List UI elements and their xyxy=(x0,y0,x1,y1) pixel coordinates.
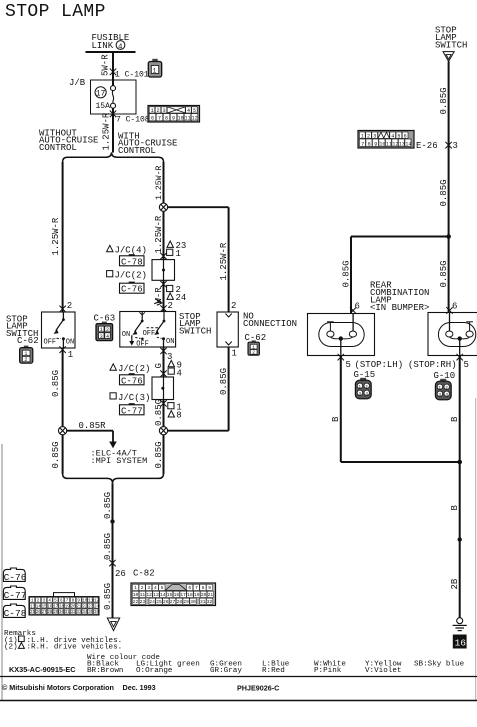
wire label G xyxy=(154,363,164,368)
svg-text:12: 12 xyxy=(392,141,398,147)
svg-text:G: G xyxy=(154,363,164,368)
svg-text:24: 24 xyxy=(176,293,187,303)
svg-text:4: 4 xyxy=(365,391,368,397)
pin 3 E-26 junction mark xyxy=(445,142,451,149)
svg-text:7 C-108: 7 C-108 xyxy=(116,116,150,125)
scan edge right xyxy=(475,398,477,700)
svg-text:11: 11 xyxy=(185,116,191,122)
svg-text:17: 17 xyxy=(180,592,186,598)
inline connector mark C-63 on wire xyxy=(154,299,162,305)
junction dot right lower xyxy=(458,537,462,541)
connector C-78 outline icon xyxy=(3,604,26,619)
joint connector strip icon xyxy=(29,593,100,616)
switch middle internals xyxy=(122,312,175,349)
svg-text:19: 19 xyxy=(65,605,71,609)
pin marker triangle 8 xyxy=(168,411,182,421)
svg-text:14: 14 xyxy=(36,605,42,609)
svg-text:C-77: C-77 xyxy=(121,406,143,416)
svg-text:0.85G: 0.85G xyxy=(154,441,164,468)
svg-text:15A: 15A xyxy=(96,102,111,111)
junction dot right xyxy=(446,234,451,239)
wire no-connection to splice xyxy=(168,430,229,432)
svg-text:0.85G: 0.85G xyxy=(51,441,61,468)
connector label C-78 boxed xyxy=(120,254,145,267)
svg-text:CONNECTION: CONNECTION xyxy=(243,319,297,329)
wire label 0.85G center 3 xyxy=(103,583,113,610)
svg-text:27: 27 xyxy=(42,611,48,615)
svg-text:35: 35 xyxy=(88,611,94,615)
wire colour code row 1 xyxy=(87,661,465,669)
wire center lower xyxy=(112,483,114,617)
wire label 0.85G middle lower xyxy=(154,441,164,468)
svg-text:19: 19 xyxy=(194,592,200,598)
connector C-108 icon xyxy=(148,106,200,123)
svg-text:5: 5 xyxy=(193,108,196,114)
svg-text:1: 1 xyxy=(151,108,154,114)
svg-text:1: 1 xyxy=(100,327,103,333)
stop lamp switch middle box xyxy=(120,312,176,348)
svg-text:OFF: OFF xyxy=(136,340,149,348)
svg-text:16: 16 xyxy=(455,638,467,649)
svg-text:OFF: OFF xyxy=(143,330,156,338)
svg-text:CONTROL: CONTROL xyxy=(118,146,156,156)
wire no-connection column xyxy=(228,207,230,312)
wire from fuse to C-108 xyxy=(112,108,114,152)
svg-text:0.85G: 0.85G xyxy=(439,260,449,287)
svg-text:10: 10 xyxy=(178,116,184,122)
branch note WITH AUTO-CRUISE CONTROL xyxy=(118,132,177,156)
svg-text:4: 4 xyxy=(391,133,394,139)
svg-text:1.25W-R: 1.25W-R xyxy=(219,242,229,280)
svg-text:16: 16 xyxy=(174,592,180,598)
connector label C-76 boxed upper xyxy=(120,282,145,295)
off-page arrow bottom xyxy=(107,618,119,631)
pin label 1 C-101 xyxy=(115,71,149,80)
svg-text:25: 25 xyxy=(30,611,36,615)
pin 2 junction mark left switch xyxy=(59,306,65,313)
svg-text:5: 5 xyxy=(346,360,351,370)
svg-text:32: 32 xyxy=(207,599,213,605)
svg-text:1: 1 xyxy=(68,350,73,360)
svg-text:2: 2 xyxy=(168,301,173,311)
svg-text:BR:Brown: BR:Brown xyxy=(87,667,123,675)
svg-text:2: 2 xyxy=(367,133,370,139)
connector C-76 outline icon xyxy=(3,568,26,583)
svg-text:34: 34 xyxy=(82,611,88,615)
svg-text:3: 3 xyxy=(100,334,103,340)
svg-text:18: 18 xyxy=(187,592,193,598)
wire label 1.25W-R below C-108 xyxy=(102,112,112,150)
wire branch to RH lamp xyxy=(448,237,450,313)
svg-text:2: 2 xyxy=(157,108,160,114)
wire label 0.85G middle xyxy=(154,399,164,426)
wire label 0.85G center 2 xyxy=(103,533,113,560)
wire 0.85R branch xyxy=(67,431,113,443)
svg-text:13: 13 xyxy=(153,592,159,598)
pin 1 junction mark left switch xyxy=(59,346,65,353)
svg-text:5: 5 xyxy=(161,585,164,591)
svg-text:3: 3 xyxy=(453,141,458,151)
junction mark out of J/C upper xyxy=(160,281,166,288)
pin 2 junction mark middle switch xyxy=(160,305,166,312)
svg-text:10: 10 xyxy=(379,141,385,147)
svg-text:13: 13 xyxy=(399,141,405,147)
svg-text:0.85G: 0.85G xyxy=(154,399,164,426)
svg-text:1: 1 xyxy=(153,68,157,75)
svg-text:26: 26 xyxy=(36,611,42,615)
svg-text:V:Violet: V:Violet xyxy=(365,667,401,675)
svg-text:30: 30 xyxy=(190,599,196,605)
svg-text:2: 2 xyxy=(231,301,236,311)
connector E-26 icon xyxy=(358,131,414,149)
svg-text:C-78: C-78 xyxy=(4,608,27,619)
svg-text:P:Pink: P:Pink xyxy=(314,667,342,675)
pin marker triangle 24 xyxy=(167,293,186,303)
diagram code KX35-AC-90915-EC xyxy=(9,665,76,674)
svg-text:0.85G: 0.85G xyxy=(103,492,113,519)
svg-text:PHJE9026-C: PHJE9026-C xyxy=(237,684,279,693)
svg-text:22: 22 xyxy=(133,599,139,605)
pin label 3 E-26 xyxy=(453,141,458,151)
pin 6 junction mark LH xyxy=(350,307,356,314)
arrow to ELC system xyxy=(109,442,117,449)
svg-text:0.85G: 0.85G xyxy=(103,533,113,560)
svg-text:5W-R: 5W-R xyxy=(101,54,111,76)
svg-text:6: 6 xyxy=(151,116,154,122)
connector label C-77 boxed xyxy=(120,403,145,416)
svg-text:12: 12 xyxy=(192,116,198,122)
junction dot ground join xyxy=(457,460,462,465)
pin label 26 C-82 xyxy=(115,569,155,580)
svg-text:5: 5 xyxy=(397,133,400,139)
fuse label 15A xyxy=(96,102,111,111)
svg-text:C-82: C-82 xyxy=(133,569,155,579)
svg-text:9: 9 xyxy=(172,116,175,122)
svg-text:1.25W-R: 1.25W-R xyxy=(102,112,112,150)
pin marker square 1 lower xyxy=(168,402,182,412)
pin 1 C-101 junction mark xyxy=(110,69,116,76)
svg-text:2: 2 xyxy=(106,327,109,333)
pin label STOP:RH 5 xyxy=(408,360,469,370)
svg-text:24: 24 xyxy=(94,605,100,609)
wire label 0.85G center 1 xyxy=(103,492,113,519)
wire right main upper xyxy=(448,61,450,236)
junction mark into J/C upper xyxy=(160,253,166,260)
remark 2 RH drive xyxy=(4,643,122,652)
svg-text:11: 11 xyxy=(140,592,146,598)
joint connector J/C(2) lower label xyxy=(110,364,150,374)
scan edge left xyxy=(1,444,3,700)
pin label 1 left switch xyxy=(68,350,73,360)
wire middle below splice xyxy=(163,435,165,474)
svg-text:15: 15 xyxy=(167,592,173,598)
wire below no-connection xyxy=(228,347,230,431)
svg-text:1.25W-R: 1.25W-R xyxy=(154,215,164,253)
title STOP LAMP xyxy=(5,2,106,22)
svg-text:26: 26 xyxy=(163,599,169,605)
svg-text:1: 1 xyxy=(24,351,27,357)
wire below J/C upper xyxy=(163,280,165,311)
wire below RH lamp xyxy=(459,356,461,618)
svg-text:9: 9 xyxy=(208,585,211,591)
wire label 1.25W-R middle xyxy=(154,215,164,253)
svg-text:0.85G: 0.85G xyxy=(341,260,351,287)
wire LH to RH join xyxy=(341,461,460,463)
junction block box xyxy=(91,80,137,114)
connector C-101 icon xyxy=(148,59,161,77)
svg-text:7: 7 xyxy=(361,141,364,147)
pin 3 junction mark middle switch xyxy=(160,348,166,355)
svg-text:SB:Sky blue: SB:Sky blue xyxy=(414,661,465,669)
pin label 6 RH xyxy=(452,302,457,312)
svg-text:3: 3 xyxy=(163,108,166,114)
junction mark into J/C lower xyxy=(160,370,166,377)
pin label 6 LH xyxy=(355,302,360,312)
svg-text:J/C(2): J/C(2) xyxy=(118,364,150,374)
connector C-63 label xyxy=(94,314,116,324)
svg-text:1: 1 xyxy=(438,385,441,391)
wire label 0.85G RH branch xyxy=(439,260,449,287)
rear combination lamp LH box xyxy=(308,314,375,356)
svg-text:4: 4 xyxy=(118,43,123,51)
svg-text:C-62: C-62 xyxy=(17,336,39,346)
wire label W-R xyxy=(154,287,164,304)
pin label 7 C-108 xyxy=(116,116,150,125)
wire label 0.85G right upper xyxy=(439,87,449,114)
svg-text::MPI SYSTEM: :MPI SYSTEM xyxy=(91,456,148,466)
svg-text:24: 24 xyxy=(149,599,155,605)
svg-text:11: 11 xyxy=(88,600,94,604)
svg-text:28: 28 xyxy=(47,611,53,615)
wire label 0.85G left lower xyxy=(51,441,61,468)
joint connector J/C(2) upper label xyxy=(107,271,147,281)
svg-text:36: 36 xyxy=(94,611,100,615)
wire label 0.85G right mid xyxy=(439,179,449,206)
svg-text:21: 21 xyxy=(208,592,214,598)
svg-text:8: 8 xyxy=(165,116,168,122)
label E-26 xyxy=(416,141,438,151)
svg-text:6: 6 xyxy=(452,302,457,312)
svg-text:10: 10 xyxy=(82,600,88,604)
svg-text:4: 4 xyxy=(106,334,109,340)
svg-text:10: 10 xyxy=(133,592,139,598)
svg-text:1: 1 xyxy=(361,133,364,139)
svg-text:SWITCH: SWITCH xyxy=(435,41,467,51)
splice left xyxy=(59,427,67,435)
svg-text:ON: ON xyxy=(122,331,130,339)
note ELC-4A/T MPI SYSTEM xyxy=(91,449,148,467)
svg-text:0.85G: 0.85G xyxy=(439,179,449,206)
svg-text:<IN BUMPER>: <IN BUMPER> xyxy=(370,303,429,313)
svg-text:29: 29 xyxy=(183,599,189,605)
wire label 1.25W-R middle upper xyxy=(155,166,164,200)
fuse 15A element xyxy=(111,86,116,109)
svg-text:C-76: C-76 xyxy=(121,285,143,295)
svg-text:O:Orange: O:Orange xyxy=(136,667,173,675)
svg-text:11: 11 xyxy=(386,141,392,147)
svg-text:J/B: J/B xyxy=(69,78,86,88)
svg-text:29: 29 xyxy=(53,611,59,615)
pin label 2 left switch xyxy=(67,301,72,311)
wire label 0.85G no-connection xyxy=(219,368,229,395)
svg-text:(STOP:LH): (STOP:LH) xyxy=(355,360,404,370)
wire middle to J/C xyxy=(163,211,165,259)
svg-text:9: 9 xyxy=(374,141,377,147)
wire label 0.85R xyxy=(79,421,107,431)
ground label G-15 xyxy=(354,370,376,380)
wire label 1.25W-R right xyxy=(219,242,229,280)
brace wire merge xyxy=(63,474,164,484)
svg-text:20: 20 xyxy=(71,605,77,609)
svg-text:R:Red: R:Red xyxy=(262,667,285,675)
wire label 0.85G left xyxy=(51,370,61,397)
svg-text::R.H. drive vehicles.: :R.H. drive vehicles. xyxy=(27,644,123,652)
pin marker triangle 9 xyxy=(168,360,182,370)
svg-text:8: 8 xyxy=(202,585,205,591)
svg-text:STOP LAMP: STOP LAMP xyxy=(5,2,106,22)
svg-text:1.25W-R: 1.25W-R xyxy=(155,166,164,200)
connector C-62 icon xyxy=(20,346,33,364)
svg-text:2: 2 xyxy=(365,384,368,390)
wire left below splice xyxy=(62,435,64,474)
connector C-82 icon xyxy=(131,583,216,606)
svg-text:12: 12 xyxy=(94,600,100,604)
svg-text:GR:Gray: GR:Gray xyxy=(210,667,242,675)
svg-text:17: 17 xyxy=(96,89,106,98)
wire 0.85G below left switch xyxy=(62,348,64,427)
svg-text:3: 3 xyxy=(147,585,150,591)
svg-text:2: 2 xyxy=(24,357,27,363)
svg-text:33: 33 xyxy=(76,611,82,615)
svg-text:KX35-AC-90915-EC: KX35-AC-90915-EC xyxy=(9,665,76,674)
wire label B RH xyxy=(450,416,460,422)
wire middle branch upper xyxy=(163,162,165,203)
stop lamp switch middle label xyxy=(179,312,211,336)
svg-text:0.85G: 0.85G xyxy=(219,368,229,395)
ground connector G-15 icon xyxy=(355,378,371,399)
svg-text:6: 6 xyxy=(188,585,191,591)
svg-text:27: 27 xyxy=(170,599,176,605)
joint connector box lower xyxy=(152,377,174,400)
ground connector G-10 icon xyxy=(435,379,451,400)
remark 1 LH drive xyxy=(4,636,122,645)
wire below LH lamp xyxy=(340,356,342,463)
svg-text:6: 6 xyxy=(355,302,360,312)
svg-text:E-26: E-26 xyxy=(416,141,438,151)
wire left branch 1.25W-R xyxy=(62,162,64,312)
wire label B LH xyxy=(331,416,341,422)
fusible link label xyxy=(92,33,130,51)
svg-text:22: 22 xyxy=(82,605,88,609)
svg-text:0.85G: 0.85G xyxy=(103,583,113,610)
label NO CONNECTION xyxy=(243,312,297,330)
svg-text:7: 7 xyxy=(158,116,161,122)
no-connection box xyxy=(217,312,238,347)
pin 26 C-82 junction mark xyxy=(109,560,115,567)
svg-text:25: 25 xyxy=(156,599,162,605)
pin 7 C-108 junction mark xyxy=(110,111,116,118)
switch C-62 internals xyxy=(44,312,75,348)
svg-text:4: 4 xyxy=(177,368,182,378)
splice middle upper xyxy=(159,203,167,211)
junction dot center xyxy=(110,519,114,523)
svg-text:0.85R: 0.85R xyxy=(79,421,107,431)
svg-text:J/C(2): J/C(2) xyxy=(115,271,147,281)
svg-text:2B: 2B xyxy=(450,578,460,589)
svg-text:B: B xyxy=(450,505,460,511)
svg-text:ON: ON xyxy=(166,338,174,346)
svg-text:J/C(3): J/C(3) xyxy=(118,393,150,403)
svg-text:14: 14 xyxy=(405,141,411,147)
svg-text:1: 1 xyxy=(358,384,361,390)
svg-text:8: 8 xyxy=(368,141,371,147)
svg-text:15: 15 xyxy=(42,605,48,609)
svg-text:(2): (2) xyxy=(4,644,18,652)
wire label 2B xyxy=(450,578,460,589)
stop lamp switch C-62 labels xyxy=(6,315,39,347)
wire label 5W-R xyxy=(101,54,111,76)
svg-text:8: 8 xyxy=(176,411,181,421)
svg-text:23: 23 xyxy=(88,605,94,609)
pin marker square 4 xyxy=(168,368,182,378)
joint connector box upper xyxy=(152,260,175,281)
svg-text:12: 12 xyxy=(146,592,152,598)
branch note WITHOUT AUTO-CRUISE CONTROL xyxy=(39,129,98,153)
svg-text:LINK: LINK xyxy=(92,41,114,51)
svg-text:18: 18 xyxy=(59,605,65,609)
svg-text:14: 14 xyxy=(160,592,166,598)
svg-text:26: 26 xyxy=(115,569,126,579)
svg-text:C-76: C-76 xyxy=(4,572,27,583)
wire label 0.85G LH branch xyxy=(341,260,351,287)
remarks heading xyxy=(4,630,36,638)
svg-text:B: B xyxy=(331,416,341,422)
splice middle lower xyxy=(159,427,167,435)
svg-text:5: 5 xyxy=(464,360,469,370)
svg-text:C-77: C-77 xyxy=(4,590,27,601)
svg-text:4: 4 xyxy=(154,585,157,591)
wire label 1.25W-R left xyxy=(51,217,61,255)
svg-text:31: 31 xyxy=(200,599,206,605)
brace wire split xyxy=(63,152,164,162)
off-page arrow from stop lamp switch xyxy=(443,52,454,62)
svg-text:B: B xyxy=(450,416,460,422)
pin label 2 no-connection xyxy=(231,301,236,311)
label STOP LAMP SWITCH top right xyxy=(435,26,467,51)
wire to no-connection column xyxy=(168,206,229,208)
connector C-62 icon no-connection xyxy=(248,340,259,355)
fusible link bus bar xyxy=(86,51,136,53)
rear combination lamp RH box xyxy=(428,313,477,356)
ground symbol xyxy=(453,618,467,631)
svg-text:4: 4 xyxy=(445,392,448,398)
svg-text:ON: ON xyxy=(66,338,74,346)
svg-text:1: 1 xyxy=(232,349,237,359)
svg-text:J/C(4): J/C(4) xyxy=(115,245,147,255)
svg-text:0.85G: 0.85G xyxy=(51,370,61,397)
junction mark out of J/C lower xyxy=(160,400,166,407)
svg-text:21: 21 xyxy=(76,605,82,609)
pin marker triangle 23 xyxy=(167,241,186,251)
pin label 5 STOP:LH xyxy=(346,360,404,370)
svg-text:16: 16 xyxy=(47,605,53,609)
lamp LH bulb xyxy=(319,314,364,356)
svg-text:C-78: C-78 xyxy=(121,257,143,267)
svg-text:2: 2 xyxy=(445,385,448,391)
svg-text:1: 1 xyxy=(134,585,137,591)
fuse number 17 circled xyxy=(95,87,106,99)
fusible link number 4 xyxy=(116,41,125,52)
